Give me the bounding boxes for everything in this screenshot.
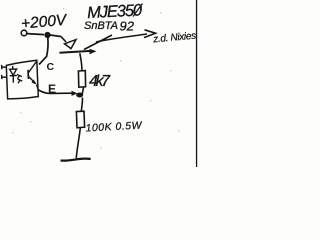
node dot base/E junction bbox=[76, 93, 83, 98]
slash through final zero bbox=[133, 4, 143, 17]
svg-text:E: E bbox=[48, 82, 56, 96]
transistor Q1 base bar with arrow bbox=[60, 51, 92, 53]
wire node down to R2 bbox=[81, 98, 82, 112]
label +200V bbox=[20, 12, 68, 33]
svg-text:4k7: 4k7 bbox=[89, 73, 111, 90]
LED D1 inside optocoupler bbox=[12, 66, 14, 69]
wire junction to emitter bbox=[50, 35, 61, 37]
R1 bottom lead bbox=[82, 88, 83, 94]
transistor Q1 emitter lead bbox=[61, 37, 66, 43]
ground bbox=[61, 159, 91, 161]
resistor R2 body bbox=[76, 111, 84, 128]
transistor Q1 collector lead bbox=[84, 35, 112, 50]
transistor Q1 emitter arrow (PNP) bbox=[65, 40, 77, 49]
arrow to nixies bbox=[96, 34, 147, 42]
phototransistor inside optocoupler bbox=[27, 70, 29, 79]
scan border right edge bbox=[196, 0, 197, 167]
svg-text:92: 92 bbox=[120, 19, 135, 34]
speckles bbox=[12, 8, 179, 148]
terminal circle +200V bbox=[21, 30, 27, 36]
optocoupler U1 box bbox=[6, 60, 38, 99]
junction node dot bbox=[44, 32, 50, 38]
svg-text:SnBTA: SnBTA bbox=[84, 20, 118, 32]
base lead down bbox=[80, 53, 82, 70]
R2 bottom lead bbox=[76, 128, 80, 158]
resistor R1 body bbox=[78, 71, 85, 88]
LED emission arrows bbox=[17, 75, 22, 84]
wire junction down to optocoupler C bbox=[39, 37, 48, 65]
paper background bbox=[0, 0, 200, 167]
wire terminal to junction bbox=[27, 34, 44, 35]
wire from optocoupler E to base node bbox=[39, 90, 73, 93]
optocoupler pin stubs left bbox=[2, 65, 7, 69]
svg-text:C: C bbox=[47, 61, 55, 73]
